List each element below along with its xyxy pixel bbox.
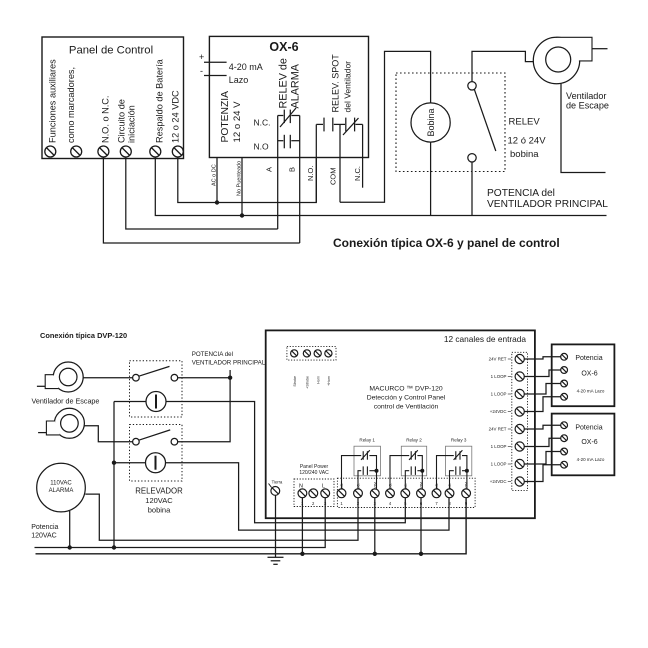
svg-text:Ventilador de Escape: Ventilador de Escape <box>32 397 100 406</box>
svg-text:+: + <box>199 52 204 62</box>
svg-text:110VAC: 110VAC <box>50 481 72 487</box>
svg-text:Respaldo de Batería: Respaldo de Batería <box>155 58 165 143</box>
svg-text:bobina: bobina <box>148 506 171 515</box>
svg-text:12 canales de entrada: 12 canales de entrada <box>444 334 526 344</box>
svg-text:RELEV de: RELEV de <box>278 58 290 108</box>
svg-text:N.O.: N.O. <box>306 166 315 181</box>
svg-text:Strobe: Strobe <box>293 376 297 387</box>
svg-text:1 LOOP: 1 LOOP <box>491 392 507 397</box>
svg-text:Ventilador: Ventilador <box>566 91 606 101</box>
svg-text:Relay 3: Relay 3 <box>451 438 467 443</box>
svg-text:Lazo: Lazo <box>229 75 249 85</box>
svg-text:24V RET: 24V RET <box>489 427 507 432</box>
svg-text:como marcadores,: como marcadores, <box>66 67 76 143</box>
svg-text:VENTILADOR PRINCIPAL: VENTILADOR PRINCIPAL <box>192 360 266 367</box>
svg-text:N.C.: N.C. <box>254 118 271 128</box>
svg-text:12 o 24 V: 12 o 24 V <box>232 101 243 143</box>
svg-text:POTENCIA del: POTENCIA del <box>487 188 555 199</box>
svg-text:control de Ventilación: control de Ventilación <box>374 404 439 411</box>
svg-text:120VAC: 120VAC <box>145 496 173 505</box>
svg-text:24V RET: 24V RET <box>489 357 507 362</box>
svg-text:1 LOOP: 1 LOOP <box>491 374 507 379</box>
svg-text:Circuito de: Circuito de <box>117 99 127 143</box>
svg-text:N.O. o N.C.: N.O. o N.C. <box>101 96 111 143</box>
svg-text:RELEVADOR: RELEVADOR <box>135 487 183 496</box>
svg-text:12 ó 24V: 12 ó 24V <box>508 136 547 147</box>
svg-text:Potencia: Potencia <box>31 524 58 531</box>
svg-text:MACURCO ™ DVP-120: MACURCO ™ DVP-120 <box>369 386 442 393</box>
svg-text:ALARMA: ALARMA <box>290 63 302 108</box>
svg-text:ALARMA: ALARMA <box>49 488 74 494</box>
svg-text:4-20 mA Lazo: 4-20 mA Lazo <box>577 457 605 462</box>
svg-text:Conexión típica OX-6 y panel d: Conexión típica OX-6 y panel de control <box>333 236 560 250</box>
svg-text:+Strobe: +Strobe <box>306 376 310 389</box>
svg-text:POTENCIA del: POTENCIA del <box>192 351 233 358</box>
svg-text:POTENZIA: POTENZIA <box>220 91 231 143</box>
svg-text:Detección y Control Panel: Detección y Control Panel <box>367 395 446 402</box>
svg-text:Horn: Horn <box>317 376 321 384</box>
svg-text:Panel de Control: Panel de Control <box>69 45 153 57</box>
svg-text:-: - <box>200 66 203 76</box>
svg-text:bobina: bobina <box>510 149 539 160</box>
svg-text:1 LOOP: 1 LOOP <box>491 462 507 467</box>
svg-text:RELEV: RELEV <box>509 117 541 128</box>
svg-text:RELEV. SPOT: RELEV. SPOT <box>331 54 341 113</box>
svg-text:Conexión típica DVP-120: Conexión típica DVP-120 <box>40 331 127 340</box>
svg-text:del Ventilador: del Ventilador <box>343 61 353 113</box>
svg-text:4-20 mA: 4-20 mA <box>229 62 263 72</box>
svg-text:1 LOOP: 1 LOOP <box>491 444 507 449</box>
svg-text:Bobina: Bobina <box>426 108 436 136</box>
svg-text:de Escape: de Escape <box>566 101 609 111</box>
svg-text:120/240 VAC: 120/240 VAC <box>299 470 329 476</box>
svg-text:Funciones auxiliares: Funciones auxiliares <box>48 59 58 143</box>
svg-text:Tierra: Tierra <box>272 480 283 485</box>
svg-text:COM: COM <box>329 168 338 186</box>
svg-text:+24VDC: +24VDC <box>490 409 507 414</box>
svg-text:120VAC: 120VAC <box>31 533 57 540</box>
svg-text:Relay 2: Relay 2 <box>406 438 422 443</box>
svg-text:OX-6: OX-6 <box>269 40 298 54</box>
svg-text:Potencia: Potencia <box>575 355 602 362</box>
svg-text:Relay 1: Relay 1 <box>359 438 375 443</box>
svg-text:N.O: N.O <box>254 142 270 152</box>
svg-text:N.C.: N.C. <box>353 166 362 181</box>
svg-text:VENTILADOR PRINCIPAL: VENTILADOR PRINCIPAL <box>487 199 608 210</box>
svg-text:OX-6: OX-6 <box>581 439 597 446</box>
svg-text:+24VDC: +24VDC <box>490 479 507 484</box>
svg-text:Potencia: Potencia <box>575 424 602 431</box>
svg-text:12 o 24 VDC: 12 o 24 VDC <box>171 90 181 143</box>
svg-text:A: A <box>265 167 274 172</box>
svg-text:4-20 mA Lazo: 4-20 mA Lazo <box>577 389 605 394</box>
svg-text:iniciación: iniciación <box>127 105 137 143</box>
svg-text:+Horn: +Horn <box>327 376 331 386</box>
svg-text:OX-6: OX-6 <box>581 370 597 377</box>
svg-text:B: B <box>288 167 297 172</box>
